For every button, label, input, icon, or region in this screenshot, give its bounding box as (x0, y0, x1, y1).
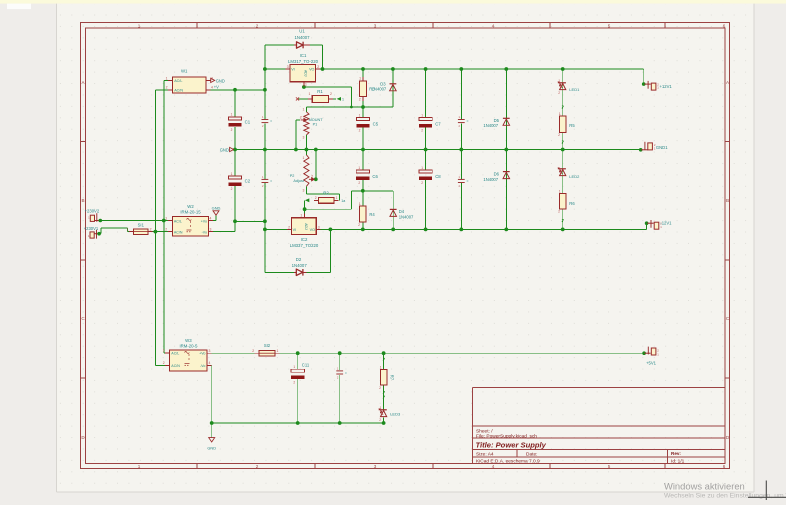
connector +12V1 (642, 81, 672, 90)
wire -12V rail (321, 228, 647, 230)
wire C10 column (460, 150, 462, 179)
svg-text:=: = (467, 120, 469, 124)
svg-text:2: 2 (293, 380, 295, 384)
svg-text:GND: GND (207, 445, 216, 450)
svg-text:1N4007: 1N4007 (294, 35, 310, 40)
svg-text:C11: C11 (302, 362, 310, 367)
wire IC1 ADJ node (303, 85, 305, 88)
svg-text:R6: R6 (569, 201, 575, 206)
svg-text:AC/L: AC/L (174, 219, 182, 223)
wire VI column (264, 45, 266, 69)
capacitor C12 small (336, 366, 347, 379)
title block (473, 388, 726, 464)
net mark R6 bottom (562, 219, 564, 222)
svg-text:MOUNT: MOUNT (309, 118, 324, 122)
wire R1 left (298, 98, 308, 100)
svg-text:VI: VI (293, 228, 296, 232)
svg-text:1a: 1a (341, 199, 345, 203)
svg-text:1: 1 (303, 156, 305, 160)
svg-text:Rev:: Rev: (671, 451, 681, 456)
connector +5V1 (642, 347, 659, 366)
svg-text:W1: W1 (181, 68, 188, 73)
junction -12V rail x461 (459, 228, 463, 232)
junction GND rail x295 (294, 148, 298, 152)
net mark R7 bottom (383, 391, 385, 394)
svg-text:VO: VO (310, 228, 315, 232)
svg-text:2: 2 (358, 181, 360, 185)
svg-text:1: 1 (559, 112, 561, 116)
svg-text:2: 2 (379, 386, 381, 390)
led LED3 (379, 406, 401, 422)
svg-text:1: 1 (421, 166, 423, 170)
svg-text:1: 1 (138, 23, 141, 28)
W2 converter glyphs (187, 219, 192, 221)
wire C12 column (339, 353, 341, 370)
junction +5V at C12 (338, 351, 342, 355)
junction VI node (263, 67, 267, 71)
svg-text:+5V1: +5V1 (646, 361, 657, 366)
svg-text:5: 5 (608, 464, 611, 469)
svg-text:1: 1 (380, 365, 382, 369)
svg-text:2: 2 (359, 97, 361, 101)
svg-text:3: 3 (318, 225, 320, 229)
svg-text:3: 3 (374, 464, 377, 469)
svg-text:1: 1 (165, 216, 167, 220)
resistor R2 (314, 190, 345, 203)
svg-text:2: 2 (358, 223, 360, 227)
junction GND rail x306 (305, 148, 309, 152)
junction C2 bottom (233, 219, 237, 223)
connector +230V1 (84, 226, 101, 239)
svg-text:SI1: SI1 (138, 223, 145, 228)
wire IC1 VI (265, 68, 286, 70)
junction IC2 ADJ node (303, 207, 307, 211)
diode D6 (483, 172, 509, 182)
svg-text:C5: C5 (373, 122, 379, 127)
junction +5V at R7 (382, 351, 386, 355)
sheet border frame (81, 23, 731, 469)
wire LED2 R6 column (562, 150, 564, 194)
svg-text:2: 2 (150, 228, 152, 232)
svg-text:1: 1 (358, 166, 360, 170)
svg-text:D4: D4 (399, 209, 405, 214)
svg-text:1: 1 (166, 76, 168, 80)
wire W3 -Vo to GND (211, 365, 213, 437)
svg-text:3: 3 (303, 188, 305, 192)
svg-text:2: 2 (315, 196, 317, 200)
svg-text:2: 2 (163, 361, 165, 365)
wire C9 column (460, 69, 462, 119)
wire P1 wiper to GND (296, 119, 300, 121)
svg-text:2: 2 (256, 464, 259, 469)
junction +12V rail at D1 (321, 67, 325, 71)
svg-text:2: 2 (558, 91, 560, 95)
svg-text:3: 3 (209, 349, 211, 353)
junction +12V rail at D3 (391, 67, 395, 71)
svg-text:2: 2 (421, 129, 423, 133)
svg-text:4: 4 (209, 361, 211, 365)
wire C8 column (425, 150, 427, 170)
resistor R6 (558, 189, 575, 213)
wire C5 column (362, 107, 364, 117)
junction lower bypass at VI rail (263, 228, 267, 232)
svg-text:2: 2 (558, 210, 560, 214)
junction +V at bypass column (263, 88, 267, 92)
W3 converter glyphs (185, 352, 190, 354)
svg-text:LED2: LED2 (569, 174, 580, 179)
wire IC2 ADJ pin (304, 209, 306, 213)
wire SI1 to W2 AC/N (153, 231, 168, 233)
svg-text:1N4007: 1N4007 (292, 263, 308, 268)
junction W3 GND (210, 421, 214, 425)
svg-text:Size: A4: Size: A4 (476, 452, 494, 458)
capacitor C2 (228, 176, 241, 179)
wire R3 column (362, 69, 364, 81)
junction GND rail x363 (361, 148, 365, 152)
resistor R3 (359, 77, 376, 102)
wire D5 column (505, 69, 507, 150)
power flag GND at W1 pin3 (211, 78, 225, 83)
connector GND1 (639, 142, 668, 152)
svg-text:IRM-20-5: IRM-20-5 (179, 344, 198, 349)
svg-text:+V: +V (214, 85, 219, 90)
svg-text:R4: R4 (369, 212, 375, 217)
capacitor C10 small (458, 175, 469, 188)
svg-text:5: 5 (608, 23, 611, 28)
resistor R4 (358, 202, 375, 227)
svg-text:Adjust: Adjust (293, 179, 304, 183)
svg-text:4: 4 (492, 464, 495, 469)
svg-text:VO: VO (309, 68, 314, 72)
svg-text:1: 1 (138, 464, 141, 469)
wire +12V rail (320, 68, 644, 70)
led LED2 (558, 168, 580, 179)
junction +12V rail at C9 (459, 67, 463, 71)
potentiometer P1 (300, 108, 323, 140)
svg-text:4: 4 (210, 216, 212, 220)
svg-text:3: 3 (374, 23, 377, 28)
wire C1 column (234, 90, 236, 117)
svg-text:LED3: LED3 (390, 411, 401, 416)
svg-text:AC/L: AC/L (171, 352, 179, 356)
svg-text:C7: C7 (435, 122, 441, 127)
svg-text:2: 2 (330, 92, 332, 96)
svg-text:1: 1 (277, 349, 279, 353)
net mark LED3 top (383, 396, 385, 399)
svg-text:3: 3 (303, 136, 305, 140)
svg-text:C2: C2 (245, 179, 251, 184)
svg-text:Wechseln Sie zu den Einstellun: Wechseln Sie zu den Einstellungen, um Wi… (664, 493, 786, 500)
svg-text:+Vo: +Vo (201, 219, 207, 223)
connector +230V2 (85, 208, 103, 222)
capacitor C4 small (262, 175, 273, 188)
svg-text:1: 1 (293, 365, 295, 369)
svg-text:AC/N: AC/N (171, 364, 180, 368)
junction AC neutral at SI1 output (154, 230, 158, 234)
wire R1 right with label 1 (333, 98, 336, 100)
svg-text:1: 1 (231, 172, 233, 176)
junction ADJ2 node at C6 (361, 189, 365, 193)
svg-text:U1: U1 (299, 29, 305, 34)
svg-text:1: 1 (336, 196, 338, 200)
svg-text:GND: GND (212, 205, 221, 210)
wire P1 bottom to GND (305, 135, 307, 150)
svg-text:2: 2 (311, 175, 313, 179)
wire bottom ground bus (212, 422, 384, 424)
diode D3 (372, 81, 397, 91)
diode D5 (483, 118, 509, 128)
junction ground bus at LED3 (382, 421, 386, 425)
potentiometer P2 (290, 155, 315, 193)
junction GND rail x562 (561, 148, 565, 152)
wire AC line from W1 pin1 down to W3 (164, 79, 168, 81)
wire P2 top (305, 150, 307, 155)
module W3 (163, 338, 212, 371)
no-connect X on R1 left (296, 97, 299, 100)
net mark LED1 (562, 106, 564, 109)
svg-text:R7: R7 (390, 375, 395, 381)
regulator IC1 LM317 (286, 53, 321, 86)
junction GND rail x264 (263, 148, 267, 152)
svg-text:+12V1: +12V1 (660, 84, 673, 89)
capacitor C11 (291, 362, 310, 384)
junction ADJ node at C5 (361, 105, 365, 109)
svg-text:IRM-20-15: IRM-20-15 (180, 209, 201, 214)
svg-text:GND: GND (220, 147, 229, 152)
regulator IC2 LM337 (287, 213, 321, 248)
svg-text:1: 1 (559, 189, 561, 193)
svg-text:=: = (270, 180, 272, 184)
junction -12V rail x330 (329, 228, 333, 232)
capacitor C9 small (458, 115, 469, 128)
fuse SI1 (127, 223, 153, 235)
module W1 (166, 68, 213, 93)
junction +5V at C11 (296, 351, 300, 355)
junction -12V rail x393 (391, 228, 395, 232)
svg-text:Date:: Date: (526, 452, 537, 458)
svg-text:1: 1 (558, 79, 560, 83)
junction AC line at 230V2 feed (162, 219, 166, 223)
wire D3 column (392, 69, 394, 107)
svg-text:1N4007: 1N4007 (483, 123, 498, 128)
svg-text:2: 2 (166, 86, 168, 90)
svg-text:ADJ: ADJ (304, 70, 308, 77)
wire 230V2 to W2 AC/L (100, 220, 168, 222)
wire D2 bypass loop (264, 229, 266, 272)
junction P2 wiper (314, 177, 318, 181)
wire 230V1 to SI1 (99, 233, 101, 235)
svg-text:B: B (726, 198, 729, 203)
svg-text:Title: Power Supply: Title: Power Supply (476, 441, 547, 450)
svg-text:GND1: GND1 (656, 145, 668, 150)
svg-text:ADJ: ADJ (304, 223, 308, 230)
junction -12V rail x425 (424, 228, 428, 232)
junction +12V rail at R3 (361, 67, 365, 71)
svg-text:2: 2 (165, 228, 167, 232)
junction +12V rail at LED1 (561, 67, 565, 71)
fuse SI2 (252, 343, 279, 356)
wire +5V rail (212, 352, 255, 354)
svg-text:4: 4 (492, 23, 495, 28)
svg-text:=: = (467, 180, 469, 184)
diode D4 (390, 209, 414, 219)
svg-text:KiCad E.D.A. eeschema 7.0.9: KiCad E.D.A. eeschema 7.0.9 (476, 458, 540, 464)
svg-text:2: 2 (300, 115, 302, 119)
wire IC2 ADJ net (305, 208, 352, 210)
junction +12V rail at D5 (504, 67, 508, 71)
capacitor C1 (228, 117, 241, 120)
svg-text:2: 2 (421, 181, 423, 185)
svg-text:1N4007: 1N4007 (399, 214, 414, 219)
power flag GND at C1 rail (220, 147, 234, 152)
svg-text:1: 1 (309, 92, 311, 96)
svg-text:GND: GND (216, 78, 225, 83)
svg-text:2: 2 (558, 133, 560, 137)
svg-text:2: 2 (288, 225, 290, 229)
svg-text:2: 2 (359, 129, 361, 133)
junction ground bus at C11 (296, 421, 300, 425)
junction GND rail x425 (424, 148, 428, 152)
svg-text:+Vo: +Vo (199, 352, 205, 356)
junction GND rail x315 (314, 148, 318, 152)
svg-text:6: 6 (723, 23, 726, 28)
wire C6 column (362, 150, 364, 170)
led LED1 (558, 79, 580, 95)
svg-text:B: B (81, 198, 84, 203)
svg-text:2: 2 (252, 349, 254, 353)
svg-text:1: 1 (127, 228, 129, 232)
svg-text:+230V2: +230V2 (85, 208, 100, 213)
wire LED1 R5 column (562, 69, 564, 116)
net mark R5 bottom (562, 141, 564, 144)
svg-text:AC/N: AC/N (174, 230, 183, 234)
svg-text:1: 1 (421, 113, 423, 117)
svg-text:SI2: SI2 (264, 343, 271, 348)
svg-text:Windows aktivieren: Windows aktivieren (664, 480, 745, 491)
power symbol GND at W2 pin4 (212, 205, 221, 220)
junction GND rail x461 (459, 148, 463, 152)
svg-text:1: 1 (231, 113, 233, 117)
junction -12V rail x506 (504, 228, 508, 232)
svg-text:2: 2 (317, 65, 319, 69)
capacitor C6 (356, 170, 369, 173)
svg-text:1: 1 (380, 406, 382, 410)
wire R4 column (362, 191, 364, 206)
svg-text:=: = (345, 371, 347, 375)
svg-text:C1: C1 (245, 119, 251, 124)
svg-text:C6: C6 (372, 174, 378, 179)
wire IC2 VI (265, 228, 287, 230)
capacitor C3 small (262, 115, 273, 128)
resistor R7 (379, 365, 394, 390)
connector -12V1 (645, 220, 672, 229)
wire P2 bottom (305, 186, 307, 194)
diode D2 (292, 257, 308, 276)
svg-text:1N4007: 1N4007 (483, 177, 498, 182)
wire +V from W1 pin4 (211, 89, 265, 91)
wire C2 column (234, 150, 236, 176)
svg-text:File: PowerSupply.kicad_sch: File: PowerSupply.kicad_sch (476, 434, 537, 440)
wire lower bypass column (264, 150, 266, 179)
wire C2 bottom to bypass column (235, 220, 265, 222)
svg-text:W3: W3 (185, 338, 192, 343)
junction +V at C1 (233, 88, 237, 92)
junction -12V rail x362 (361, 228, 365, 232)
junction GND rail x506 (504, 148, 508, 152)
svg-text:AC/N: AC/N (174, 89, 183, 93)
svg-text:D2: D2 (296, 257, 302, 262)
wire C11 column (297, 353, 299, 369)
junction GND rail x235 (233, 148, 237, 152)
resistor R1 (308, 89, 333, 103)
module W2 (165, 204, 213, 236)
svg-text:1N4007: 1N4007 (372, 87, 387, 92)
svg-text:AC/L: AC/L (174, 79, 182, 83)
svg-text:3: 3 (210, 228, 212, 232)
svg-text:2: 2 (231, 187, 233, 191)
svg-text:R5: R5 (569, 123, 575, 128)
svg-text:P2: P2 (290, 174, 295, 178)
svg-text:LED1: LED1 (569, 87, 580, 92)
svg-text:LM317_TO-220: LM317_TO-220 (288, 59, 319, 64)
svg-text:Sheet: /: Sheet: / (476, 428, 493, 434)
svg-text:2: 2 (379, 418, 381, 422)
junction lower bypass at -V net (263, 219, 267, 223)
wire P1 top (305, 107, 307, 112)
wire D4 column (392, 191, 394, 230)
svg-text:LM337_TO220: LM337_TO220 (290, 243, 319, 248)
svg-text:-Vo: -Vo (202, 230, 207, 234)
capacitor C5 (356, 118, 369, 121)
wire R7 LED3 column (383, 353, 385, 369)
wire P2 wiper (315, 150, 317, 180)
wire C7 column (425, 69, 427, 117)
svg-text:1: 1 (300, 214, 302, 218)
svg-text:1: 1 (303, 108, 305, 112)
svg-text:C8: C8 (435, 174, 441, 179)
capacitor C8 (419, 170, 432, 173)
top menu strip (0, 0, 786, 4)
resistor R5 (558, 112, 575, 137)
svg-text:W2: W2 (187, 204, 194, 209)
svg-text:R1: R1 (317, 89, 323, 94)
svg-text:IC2: IC2 (301, 237, 308, 242)
svg-text:1: 1 (359, 113, 361, 117)
wire D6 column (505, 150, 507, 230)
junction ADJ pin (302, 85, 306, 89)
capacitor C7 (419, 118, 432, 121)
net mark R7 top (383, 358, 385, 361)
svg-text:4: 4 (211, 86, 213, 90)
svg-text:2: 2 (256, 23, 259, 28)
svg-text:6: 6 (723, 464, 726, 469)
svg-text:=: = (270, 120, 272, 124)
svg-text:3: 3 (287, 65, 289, 69)
svg-text:1: 1 (163, 349, 165, 353)
svg-text:-Vo: -Vo (200, 364, 205, 368)
diode U1 (294, 29, 310, 49)
wire GND rail (234, 149, 641, 151)
svg-text:2: 2 (231, 128, 233, 132)
junction ADJ node at vertical (350, 106, 353, 109)
svg-text:-12V1: -12V1 (660, 221, 672, 226)
svg-text:R2: R2 (323, 190, 329, 195)
junction +12V rail at C7 (424, 67, 428, 71)
wire D1 bypass loop (265, 44, 294, 46)
wire R2 left to IC2 ADJ (314, 199, 319, 201)
svg-text:P1: P1 (313, 123, 318, 127)
svg-text:VI: VI (291, 68, 294, 72)
